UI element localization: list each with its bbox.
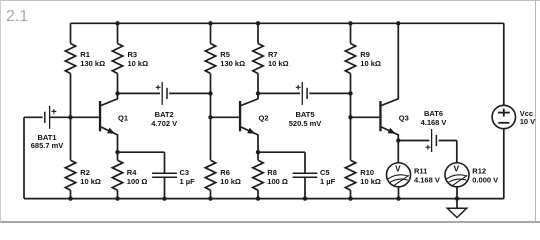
wire: R9 node to base node	[350, 93, 352, 117]
svg-text:10 V: 10 V	[520, 117, 535, 126]
battery BAT5 520.5 mV	[258, 82, 351, 128]
svg-text:Q1: Q1	[118, 113, 128, 122]
resistor R4 100 Ω	[112, 152, 147, 198]
capacitor C5 1 µF	[258, 152, 336, 198]
resistor R2 10 kΩ	[65, 117, 101, 198]
svg-text:130 kΩ: 130 kΩ	[80, 59, 105, 68]
svg-text:10 kΩ: 10 kΩ	[220, 177, 241, 186]
voltage source Vcc 10 V	[492, 23, 535, 198]
svg-text:R3: R3	[128, 50, 138, 59]
transistor Q3	[351, 23, 409, 140]
svg-text:10 kΩ: 10 kΩ	[80, 177, 101, 186]
resistor R10 10 kΩ	[345, 117, 381, 198]
svg-text:R10: R10	[360, 168, 374, 177]
svg-text:R11: R11	[414, 167, 427, 176]
node: base-row junctions	[68, 115, 352, 119]
section label 2.1	[6, 8, 28, 26]
resistor R6 10 kΩ	[205, 117, 241, 198]
resistor R8 100 Ω	[253, 152, 288, 198]
transistor Q1	[71, 93, 129, 152]
svg-text:C3: C3	[180, 168, 190, 177]
svg-text:V: V	[395, 164, 401, 173]
svg-text:Q2: Q2	[259, 113, 269, 122]
node: collector-row junctions	[115, 91, 352, 95]
svg-text:520.5 mV: 520.5 mV	[289, 119, 322, 128]
svg-text:10 kΩ: 10 kΩ	[268, 59, 289, 68]
svg-text:R12: R12	[472, 167, 486, 176]
svg-text:0.000 V: 0.000 V	[472, 175, 498, 184]
svg-text:Q3: Q3	[399, 113, 409, 122]
svg-text:4.702 V: 4.702 V	[151, 119, 177, 128]
svg-text:R1: R1	[80, 50, 90, 59]
battery BAT6 4.168 V	[398, 109, 457, 163]
capacitor C3 1 µF	[118, 152, 196, 198]
svg-text:R4: R4	[127, 168, 137, 177]
svg-text:R2: R2	[80, 168, 90, 177]
node: bottom rail junctions	[68, 196, 459, 200]
svg-text:4.168 V: 4.168 V	[421, 118, 447, 127]
svg-text:BAT2: BAT2	[155, 110, 174, 119]
svg-text:685.7 mV: 685.7 mV	[31, 141, 64, 150]
node: top rail junctions	[115, 21, 400, 25]
svg-text:R6: R6	[220, 168, 230, 177]
svg-text:100 Ω: 100 Ω	[127, 177, 148, 186]
wire: left input riser	[23, 117, 25, 198]
svg-text:1 µF: 1 µF	[180, 177, 196, 186]
wire: top power rail	[71, 22, 504, 24]
ground	[447, 199, 466, 218]
voltmeter R12 0.000 V	[445, 163, 498, 199]
svg-text:C5: C5	[320, 168, 330, 177]
resistor R1 130 kΩ	[65, 23, 105, 117]
voltmeter R11 4.168 V	[386, 141, 439, 199]
svg-text:V: V	[454, 164, 460, 173]
node: emitter junctions	[115, 138, 400, 154]
wire: bottom ground rail	[24, 198, 504, 200]
svg-text:R5: R5	[220, 50, 230, 59]
transistor Q2	[211, 93, 269, 152]
svg-text:R8: R8	[267, 168, 277, 177]
svg-text:4.168 V: 4.168 V	[414, 175, 440, 184]
battery BAT2 4.702 V	[118, 82, 211, 128]
panel divider line	[535, 0, 536, 223]
svg-text:100 Ω: 100 Ω	[267, 177, 288, 186]
svg-text:10 kΩ: 10 kΩ	[360, 59, 381, 68]
svg-text:R9: R9	[360, 50, 370, 59]
svg-text:10 kΩ: 10 kΩ	[360, 177, 381, 186]
svg-text:R7: R7	[268, 50, 278, 59]
resistor R3 10 kΩ	[112, 23, 148, 93]
resistor R7 10 kΩ	[253, 23, 289, 93]
resistor R9 10 kΩ	[345, 23, 381, 93]
svg-text:10 kΩ: 10 kΩ	[128, 59, 149, 68]
svg-text:BAT5: BAT5	[295, 110, 314, 119]
svg-text:130 kΩ: 130 kΩ	[220, 59, 245, 68]
battery BAT1 685.7 mV	[24, 106, 71, 150]
svg-text:1 µF: 1 µF	[320, 177, 336, 186]
resistor R5 130 kΩ	[205, 23, 245, 117]
